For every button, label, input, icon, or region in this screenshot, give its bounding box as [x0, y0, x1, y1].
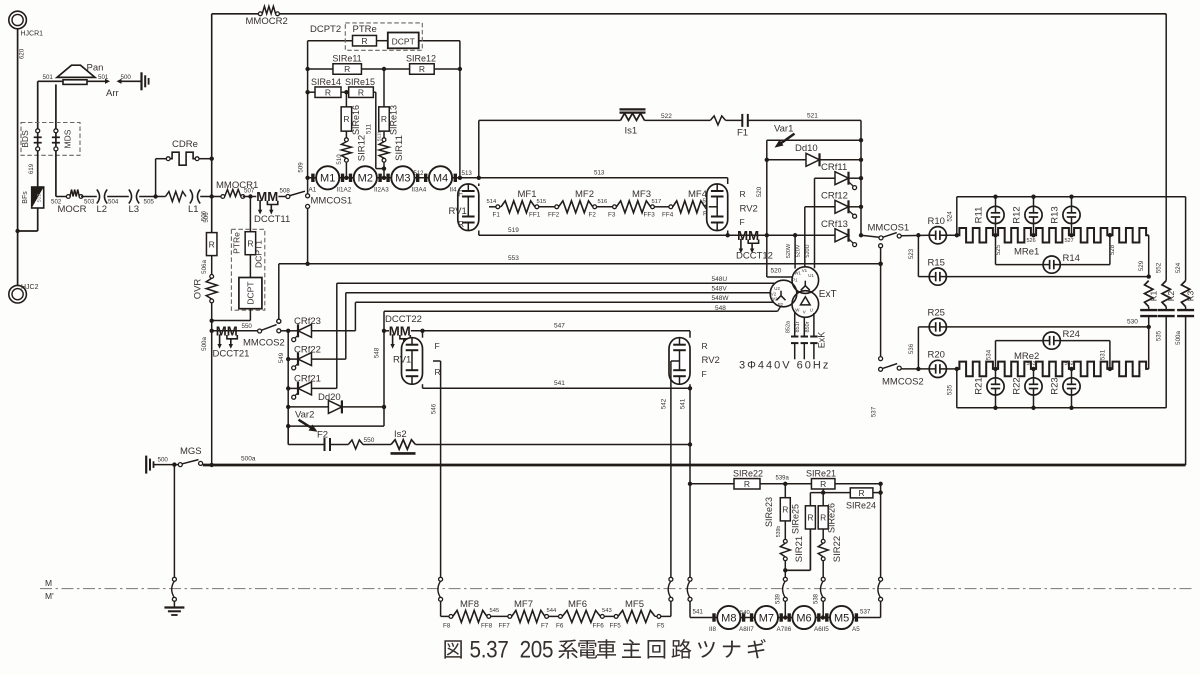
wire DCPT2 row — [308, 40, 460, 42]
wire 520U — [805, 178, 815, 268]
wire 520W — [786, 233, 798, 269]
ground (MGS) — [146, 456, 178, 474]
wire SIRe14 row — [308, 90, 376, 94]
resistor SIRe24 — [846, 488, 876, 511]
wire 519 main line — [479, 227, 835, 237]
resistor SIR11 — [379, 135, 405, 178]
svg-text:II4: II4 — [450, 186, 457, 193]
svg-text:528: 528 — [1109, 244, 1116, 255]
svg-text:513: 513 — [594, 170, 605, 177]
changeover switch MMCOS1 (left) — [286, 179, 352, 264]
svg-text:512: 512 — [414, 171, 425, 177]
svg-text:FF8: FF8 — [481, 623, 493, 630]
svg-text:R: R — [782, 505, 788, 515]
contact F5 — [655, 615, 665, 630]
svg-text:520W: 520W — [786, 243, 792, 258]
svg-text:3Φ440V 60Hz: 3Φ440V 60Hz — [739, 360, 830, 372]
svg-text:RV2: RV2 — [702, 355, 720, 366]
svg-text:R: R — [458, 219, 464, 229]
changeover switch MMCOS1 (right) — [861, 223, 909, 248]
contacts FF1 FF2 — [529, 199, 560, 219]
wire 550 — [212, 323, 260, 331]
svg-text:F5: F5 — [657, 623, 665, 630]
inductor L2 — [97, 190, 119, 216]
svg-text:521: 521 — [807, 113, 818, 120]
svg-text:R: R — [343, 114, 349, 124]
thyristor CRf12 — [805, 191, 861, 219]
svg-text:R: R — [381, 114, 387, 124]
taps R11-R13 to MRe1 — [993, 224, 1112, 238]
svg-text:DCCT12: DCCT12 — [736, 251, 773, 262]
traction motor M5 — [814, 606, 860, 633]
resistor SIRe21 — [806, 469, 836, 490]
svg-text:Var1: Var1 — [774, 124, 793, 135]
wire Pan to BDS — [37, 81, 39, 129]
svg-text:FF4: FF4 — [662, 212, 674, 219]
svg-text:MF8: MF8 — [460, 599, 479, 610]
current transformer DCCT11 — [254, 189, 290, 225]
svg-text:500: 500 — [158, 457, 169, 464]
svg-text:F3: F3 — [608, 212, 616, 219]
svg-text:515: 515 — [537, 199, 547, 205]
svg-text:539: 539 — [776, 593, 782, 604]
dashed box DCPT1 — [231, 229, 264, 310]
svg-text:R15: R15 — [928, 258, 945, 269]
svg-text:SIRe12: SIRe12 — [406, 54, 436, 64]
svg-text:R: R — [744, 479, 750, 489]
svg-text:510: 510 — [336, 154, 343, 165]
svg-text:R14: R14 — [1063, 253, 1080, 264]
coupler 539 — [776, 571, 788, 618]
surge unit K3 — [1175, 197, 1195, 465]
contacts F7 F6 — [541, 608, 564, 630]
caption 図5.37 — [444, 636, 765, 663]
contact F4 — [703, 199, 713, 218]
svg-text:K2: K2 — [1166, 291, 1176, 302]
wire MMCOS middle vertical — [878, 248, 882, 357]
contactor R13 — [1050, 197, 1081, 224]
wire 511 — [366, 92, 385, 168]
svg-text:M: M — [45, 578, 52, 588]
svg-text:DCPT: DCPT — [392, 36, 415, 46]
wire 553 — [277, 255, 883, 323]
wire — [726, 119, 743, 121]
arrester Arr arrows — [87, 74, 141, 99]
svg-text:501: 501 — [98, 74, 109, 81]
svg-text:MRe1: MRe1 — [1014, 247, 1039, 258]
wire L1 to main vertical — [200, 157, 223, 199]
svg-text:R: R — [820, 513, 826, 523]
svg-text:R: R — [325, 87, 331, 97]
resistor (550) — [348, 440, 363, 449]
ground (arrester) — [142, 72, 149, 90]
svg-text:550: 550 — [242, 323, 253, 330]
earth ground — [164, 608, 184, 616]
traction motor M6 — [777, 606, 821, 633]
svg-text:526: 526 — [1027, 238, 1036, 244]
svg-text:SIR21: SIR21 — [794, 536, 805, 562]
svg-text:R12: R12 — [1012, 206, 1023, 223]
field winding MF7 — [512, 599, 545, 622]
svg-text:V: V — [803, 310, 806, 315]
svg-text:549: 549 — [278, 352, 285, 363]
wire 541 horizontal — [423, 380, 693, 390]
svg-text:II3A4: II3A4 — [412, 186, 427, 193]
disconnector MDS — [52, 129, 60, 151]
svg-text:CRf11: CRf11 — [821, 162, 847, 173]
svg-text:CRf22: CRf22 — [294, 344, 321, 355]
contacts FF8 FF7 — [481, 608, 512, 630]
svg-text:553: 553 — [508, 255, 519, 262]
svg-text:Var2: Var2 — [295, 410, 314, 421]
svg-text:517: 517 — [652, 199, 662, 205]
coupler 538 — [814, 577, 826, 617]
svg-text:519: 519 — [508, 227, 519, 234]
svg-text:MF1: MF1 — [518, 189, 537, 200]
svg-text:Dd20: Dd20 — [318, 392, 341, 403]
svg-text:520: 520 — [756, 186, 763, 197]
wire 524 riser — [947, 197, 957, 236]
varistor Var1 — [767, 124, 861, 148]
svg-text:OVR: OVR — [193, 279, 204, 300]
resistor MRe1 — [957, 228, 1149, 258]
wire 508 — [278, 188, 290, 197]
wire 549 vertical — [278, 329, 290, 445]
svg-text:SIRe13: SIRe13 — [389, 105, 399, 135]
capacitor F1 — [737, 114, 748, 139]
coupling line M-M' — [40, 578, 1192, 601]
capacitor F2 — [317, 430, 330, 452]
svg-text:535: 535 — [1156, 330, 1163, 341]
svg-text:548: 548 — [715, 305, 726, 312]
current transformer DCCT12 — [736, 228, 773, 262]
wire Pan to MDS — [55, 84, 57, 128]
svg-text:SIR11: SIR11 — [394, 135, 405, 161]
reverser RV1 (group2) — [393, 331, 441, 389]
svg-text:SIRe21: SIRe21 — [806, 469, 836, 479]
svg-text:MOCR: MOCR — [58, 204, 87, 215]
wire 548U — [337, 276, 775, 388]
resistor SIRe11 — [332, 54, 361, 75]
current transformer DCCT22 — [384, 314, 422, 349]
svg-text:BFs: BFs — [22, 191, 29, 204]
svg-text:R23: R23 — [1050, 377, 1061, 394]
resistor PTRe (R) — [232, 232, 256, 255]
svg-text:L2: L2 — [97, 204, 108, 215]
svg-text:619: 619 — [28, 163, 35, 174]
svg-text:550: 550 — [364, 437, 375, 444]
svg-text:520V: 520V — [796, 244, 802, 257]
svg-text:R: R — [419, 64, 425, 74]
svg-text:CDRe: CDRe — [172, 139, 198, 150]
svg-text:503: 503 — [84, 199, 95, 206]
svg-text:548W: 548W — [712, 295, 730, 302]
top bus wire — [212, 13, 1166, 15]
disconnector box BDS/MDS (dashed) — [20, 123, 80, 156]
svg-text:851r: 851r — [795, 321, 801, 332]
wire — [201, 256, 212, 277]
svg-text:543: 543 — [602, 608, 612, 614]
reverser RV2 (group1) — [707, 178, 758, 235]
svg-text:DCCT22: DCCT22 — [385, 314, 422, 325]
svg-text:531: 531 — [1100, 349, 1107, 360]
wire 529 — [1138, 235, 1151, 279]
svg-text:RV2: RV2 — [740, 204, 758, 215]
svg-text:K1: K1 — [1149, 291, 1159, 302]
svg-text:A7II6: A7II6 — [777, 626, 792, 633]
svg-text:529: 529 — [1138, 260, 1145, 271]
svg-text:CRf12: CRf12 — [821, 191, 848, 202]
relay wire 507 down — [249, 197, 251, 232]
svg-text:501: 501 — [43, 74, 54, 81]
svg-text:M6: M6 — [796, 612, 811, 624]
svg-text:541: 541 — [693, 609, 704, 616]
wire 541 vertical — [680, 388, 693, 579]
svg-text:R: R — [702, 341, 708, 351]
svg-text:CRf13: CRf13 — [821, 219, 848, 230]
svg-text:546: 546 — [430, 403, 437, 414]
svg-text:ExT: ExT — [819, 289, 837, 300]
svg-text:506: 506 — [201, 210, 208, 221]
svg-text:506a: 506a — [201, 260, 208, 274]
svg-text:II2A3: II2A3 — [374, 186, 389, 193]
wire 520 — [756, 140, 793, 277]
svg-text:R13: R13 — [1050, 206, 1061, 223]
svg-text:M3: M3 — [395, 173, 410, 185]
svg-text:SIRe14: SIRe14 — [311, 77, 341, 87]
svg-text:Is2: Is2 — [394, 429, 407, 440]
transducer box DCPT — [239, 278, 262, 309]
svg-text:537: 537 — [860, 609, 871, 616]
svg-text:520U: 520U — [805, 244, 811, 257]
svg-text:MF7: MF7 — [514, 599, 533, 610]
inductor L3 — [129, 190, 155, 216]
svg-text:539b: 539b — [776, 526, 782, 538]
reverser RV2 (group2) — [669, 331, 720, 389]
svg-text:SIR22: SIR22 — [832, 536, 843, 562]
contactor R15 — [918, 258, 1148, 286]
svg-text:523: 523 — [908, 248, 915, 259]
overcurrent relay MMOCR1 — [216, 180, 258, 198]
traction motor M1 — [309, 166, 345, 193]
svg-text:M4: M4 — [433, 173, 448, 185]
svg-text:502: 502 — [37, 194, 43, 203]
svg-text:F7: F7 — [541, 623, 549, 630]
traction motor M3 — [374, 166, 419, 193]
wire 547 — [411, 323, 690, 333]
svg-text:MGS: MGS — [180, 446, 202, 457]
svg-text:R11: R11 — [974, 207, 985, 224]
wire 548W — [355, 295, 773, 331]
contacts FF3 FF4 — [644, 199, 674, 219]
wire to R20 — [901, 367, 929, 371]
traction motor M7 — [739, 606, 783, 633]
svg-text:R: R — [435, 367, 441, 377]
svg-text:K3: K3 — [1185, 291, 1195, 302]
svg-text:RV1: RV1 — [449, 206, 467, 217]
svg-text:A8II7: A8II7 — [739, 626, 754, 633]
svg-text:FF6: FF6 — [593, 623, 605, 630]
svg-text:ExK: ExK — [817, 332, 827, 349]
riser 513 (right) — [458, 41, 462, 180]
wire DCPT to 500a — [212, 309, 251, 321]
svg-text:R20: R20 — [928, 350, 945, 361]
svg-text:R: R — [247, 238, 253, 248]
svg-text:M8: M8 — [721, 612, 736, 624]
svg-text:522: 522 — [661, 113, 672, 120]
fusible link Is1 — [620, 109, 646, 136]
svg-text:DCCT21: DCCT21 — [213, 349, 250, 360]
wire OVR down — [201, 303, 214, 465]
resistor SIRe26 — [818, 493, 837, 540]
svg-text:Is1: Is1 — [625, 126, 638, 137]
resistor SIR21 — [780, 536, 805, 573]
svg-text:511: 511 — [366, 124, 373, 134]
wire MDS down — [56, 151, 68, 197]
contactor R23 — [1050, 367, 1081, 395]
svg-text:R25: R25 — [928, 308, 945, 319]
overvoltage relay OVR — [193, 275, 218, 303]
svg-text:F: F — [435, 341, 440, 351]
svg-text:SIR12: SIR12 — [357, 135, 368, 161]
svg-text:SIRe15: SIRe15 — [345, 77, 375, 87]
svg-text:548U: 548U — [712, 276, 728, 283]
resistor SIRe16 — [341, 92, 361, 138]
wire — [243, 194, 256, 198]
wire to R10 — [901, 233, 929, 237]
thyristor CRf11 — [815, 162, 862, 190]
svg-text:MF6: MF6 — [568, 599, 587, 610]
field winding MF2 — [559, 189, 594, 213]
svg-text:525: 525 — [995, 244, 1002, 255]
svg-text:540: 540 — [740, 610, 750, 616]
svg-text:II8: II8 — [709, 626, 716, 633]
svg-text:SIRe22: SIRe22 — [733, 469, 763, 479]
svg-text:SIRe16: SIRe16 — [351, 105, 361, 135]
svg-text:SIRe11: SIRe11 — [332, 54, 361, 64]
resistor SIRe25 — [785, 493, 815, 571]
field winding MF5 — [618, 599, 655, 622]
diode Dd20 — [288, 392, 384, 413]
svg-text:HJC2: HJC2 — [21, 284, 39, 291]
svg-text:537: 537 — [870, 406, 877, 417]
svg-text:MF3: MF3 — [632, 189, 651, 200]
svg-text:PTRe: PTRe — [353, 24, 377, 35]
svg-text:FF3: FF3 — [644, 212, 656, 219]
thyristor CRf13 — [821, 219, 857, 246]
field winding MF6 — [562, 599, 600, 622]
svg-text:R22: R22 — [1012, 377, 1023, 394]
overcurrent relay MOCR — [51, 190, 95, 216]
svg-text:R: R — [859, 488, 865, 498]
svg-text:FF5: FF5 — [610, 623, 622, 630]
svg-text:MMCOS2: MMCOS2 — [243, 338, 285, 349]
wire 536 — [908, 327, 918, 369]
wire 522 — [479, 113, 711, 120]
svg-text:PTRe: PTRe — [232, 232, 242, 254]
resistor (522 line) — [710, 116, 725, 125]
svg-text:CRf23: CRf23 — [294, 316, 321, 327]
svg-text:532: 532 — [1065, 361, 1074, 367]
wire SIRe22 row — [690, 476, 883, 486]
svg-text:507: 507 — [244, 188, 255, 195]
svg-text:502: 502 — [51, 199, 62, 206]
wire BFs to HJC2 line — [37, 208, 39, 231]
svg-text:500: 500 — [121, 74, 132, 81]
changeover switch MMCOS2 (right) — [879, 357, 924, 388]
wire 619 — [28, 151, 38, 187]
wire 501 left — [38, 74, 63, 81]
svg-text:620: 620 — [19, 48, 26, 59]
field winding MF3 — [616, 189, 651, 213]
ground coupler — [172, 465, 177, 608]
svg-text:536: 536 — [908, 343, 915, 354]
svg-text:Arr: Arr — [106, 88, 119, 99]
dashed box DCPT2 — [310, 23, 422, 50]
svg-text:F2: F2 — [589, 212, 597, 219]
svg-text:552: 552 — [1156, 262, 1163, 273]
wire 524 top — [957, 195, 1186, 199]
svg-text:548V: 548V — [712, 286, 728, 293]
svg-text:M1: M1 — [320, 173, 335, 185]
traction motor M4 — [412, 166, 605, 193]
svg-text:545: 545 — [490, 608, 500, 614]
svg-text:F: F — [458, 189, 463, 199]
motor wire group2 — [712, 615, 858, 619]
contactor R10 — [928, 216, 947, 244]
disconnector BDS — [34, 129, 42, 151]
svg-text:MMCOS1: MMCOS1 — [868, 223, 910, 234]
svg-text:R: R — [820, 479, 826, 489]
inductor L1 — [166, 190, 211, 223]
svg-text:548: 548 — [374, 347, 381, 358]
svg-text:514: 514 — [487, 199, 497, 205]
resistor MRe2 — [957, 351, 1149, 376]
svg-text:BDS: BDS — [20, 130, 30, 148]
svg-text:524: 524 — [1175, 262, 1182, 273]
wire — [946, 367, 959, 371]
supply leads ExK — [785, 313, 826, 360]
svg-text:M5: M5 — [834, 612, 849, 624]
svg-text:Dd10: Dd10 — [795, 143, 818, 154]
wire 521 corner down — [859, 120, 863, 237]
svg-text:DCPT: DCPT — [245, 282, 255, 305]
reverser RV1 (group1) — [449, 184, 496, 236]
svg-text:530: 530 — [1127, 319, 1138, 326]
svg-text:R: R — [361, 36, 367, 46]
svg-text:L1: L1 — [188, 204, 199, 215]
svg-text:L3: L3 — [129, 204, 140, 215]
svg-text:W1: W1 — [794, 271, 801, 276]
varistor Var2 — [288, 407, 384, 432]
svg-text:R: R — [209, 239, 215, 249]
svg-text:RV1: RV1 — [393, 355, 411, 366]
changeover switch MMCOS2 (left) — [243, 319, 288, 348]
coupler 542 — [661, 577, 673, 616]
svg-text:850r: 850r — [805, 321, 811, 332]
svg-text:MF5: MF5 — [625, 599, 644, 610]
svg-text:509: 509 — [298, 162, 305, 173]
svg-text:Pan: Pan — [87, 63, 104, 74]
svg-text:547: 547 — [554, 323, 565, 330]
damping reactor CDRe — [166, 139, 211, 165]
svg-text:M7: M7 — [759, 612, 774, 624]
svg-text:R: R — [740, 189, 746, 199]
wire F2 Is2 line — [288, 426, 692, 447]
svg-text:A5: A5 — [852, 626, 860, 633]
svg-text:500a: 500a — [1175, 331, 1182, 345]
svg-text:U: U — [810, 307, 813, 312]
